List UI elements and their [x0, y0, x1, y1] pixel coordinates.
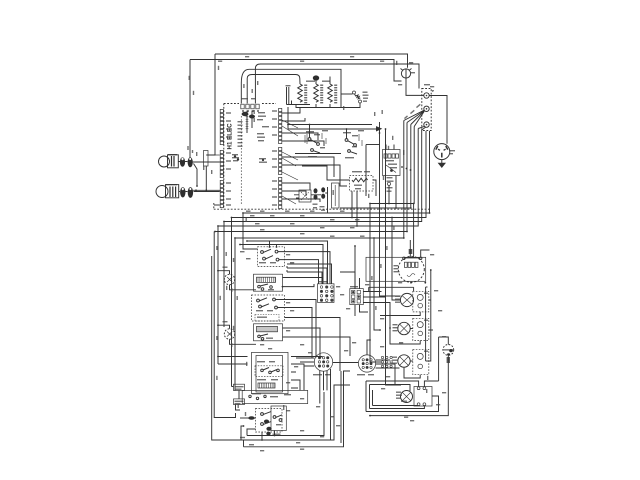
pilot relay K1 box — [254, 274, 283, 291]
label RED wire — [410, 110, 415, 114]
label latch — [403, 150, 404, 155]
wire CN1-a curve to bank top — [241, 69, 341, 107]
wire S5 out rows — [291, 357, 322, 391]
wire OL1 leads — [178, 161, 220, 164]
interlock switch IS1 — [308, 138, 311, 141]
label CN1 wires — [243, 84, 244, 88]
surface switch S1 dashed box — [258, 247, 285, 267]
fuse resistor R5 — [353, 91, 356, 94]
wire E-col link — [426, 286, 428, 288]
wire bus b7 — [215, 123, 407, 232]
wire IL2 leads — [218, 325, 230, 329]
wire S2 out3 — [285, 318, 341, 372]
wire drop x224 — [223, 222, 225, 328]
wire latch bottom drops — [388, 185, 390, 203]
wire P3 tops — [287, 264, 332, 284]
wire K1 out2 — [283, 284, 315, 287]
wire CN1 drop b — [251, 111, 253, 129]
wire bus b5 — [224, 130, 422, 222]
wire fan T2-b — [407, 111, 424, 123]
svg-text:H1 ELEC: H1 ELEC — [227, 123, 234, 150]
wire P6 down — [340, 371, 342, 443]
label lamp wires — [196, 152, 197, 156]
wire RC1 wires — [380, 287, 431, 315]
wire fan T2-c — [411, 111, 424, 125]
wire RC3 wires — [404, 361, 429, 378]
wire K2 out2 — [283, 337, 351, 356]
capacitor C1a — [180, 157, 185, 167]
interlock switch IS2 — [345, 139, 348, 142]
receptacle RC1 dashed — [413, 291, 429, 312]
connector strip CR3 — [279, 177, 282, 180]
S6 inner box — [271, 406, 286, 431]
wire M1 top right — [421, 250, 430, 257]
console pin labels column — [238, 121, 243, 122]
console inner dashed divider — [240, 116, 242, 205]
wire R5 out — [341, 103, 360, 108]
wire P6 up — [367, 340, 370, 355]
surface element E4 — [401, 391, 413, 403]
connector P5 round block — [314, 353, 332, 371]
latch assembly box — [383, 150, 401, 176]
receptacle RC2 dashed — [413, 318, 429, 340]
wire M1 bottom — [369, 282, 414, 292]
wire bank bottom step — [287, 101, 311, 105]
S2 contacts — [257, 299, 260, 302]
wire top bus L1 — [215, 54, 408, 68]
connector strip CR1 — [279, 108, 282, 111]
junction dots bundle — [401, 166, 403, 168]
label R2 — [320, 85, 323, 86]
wire console inner 5 — [282, 157, 334, 177]
wire CN1 drop a — [246, 111, 248, 134]
connector P3 block — [318, 284, 335, 303]
diode pack DK1 — [204, 151, 209, 167]
wire TOD link — [232, 387, 241, 411]
bake element R2 — [314, 84, 319, 102]
wire E4 bottom wires — [366, 396, 439, 412]
wire S2 out1 — [275, 300, 316, 358]
wire console inner 8 — [282, 191, 306, 196]
bus wire labels — [246, 211, 251, 212]
wire latch outer edge — [365, 145, 367, 197]
wire K1 out1 — [283, 278, 323, 285]
wire feed x392 — [392, 218, 401, 301]
junction dots bus — [413, 203, 415, 205]
label TOD wires — [238, 404, 239, 408]
extra pin grid PG — [381, 356, 383, 358]
label bank wires — [343, 106, 344, 110]
capacitor C2a — [180, 187, 185, 197]
label R1 — [304, 85, 307, 86]
label fan — [404, 115, 408, 119]
wire bus b3 — [243, 131, 430, 213]
power plug P1 body — [434, 144, 450, 160]
wire console inner 7 — [282, 183, 310, 190]
wire P5-P6 link — [333, 362, 359, 364]
connector P4 block — [350, 289, 364, 305]
wire console inner 3 — [282, 133, 318, 140]
wire IS row bottom — [295, 153, 341, 155]
control console dashed box — [223, 104, 225, 210]
label BLK wire — [416, 104, 421, 108]
wire hline 124 — [288, 124, 372, 126]
wire elem long v1 — [380, 122, 401, 296]
wire OL3 to terminal — [406, 78, 424, 95]
label bank top caption — [306, 81, 315, 82]
wire IL1 leads — [218, 271, 230, 275]
wire P5 down — [320, 369, 331, 440]
wire hline 129 arrow — [288, 128, 377, 130]
wire outer loop x211 — [212, 256, 241, 440]
wire P4 out right — [363, 292, 390, 329]
wire lamp link — [205, 166, 207, 190]
surface switch S2 dashed box — [252, 295, 285, 321]
wire feed x385 dot — [385, 221, 387, 223]
K1 coil — [257, 277, 276, 282]
wire OL4 right v — [438, 337, 440, 381]
wire CL3 stub — [214, 204, 220, 206]
wire S6 left2 — [247, 429, 256, 436]
connector strip CL3 — [220, 180, 223, 183]
wire E4 loop outer — [366, 381, 419, 387]
connector strip CL2 — [220, 150, 223, 153]
wire left drop BK — [189, 60, 191, 158]
wire elem long v2 — [386, 129, 402, 385]
plug ground lead — [441, 160, 443, 164]
wire R5 in — [341, 93, 353, 95]
wire OL4 top — [439, 337, 449, 345]
wire bottom nest1 — [247, 392, 324, 436]
M1 connector — [404, 262, 407, 267]
wire feed x370 — [370, 204, 381, 363]
oven light OL3 — [401, 69, 410, 78]
wire RC2 wires — [390, 328, 433, 344]
wire lower box top2 — [247, 241, 328, 284]
connector P6 round block — [358, 355, 375, 372]
wire S1 top — [269, 241, 271, 247]
wire bottom nest3 — [244, 371, 351, 447]
wire S2 out2 — [277, 308, 312, 358]
wire lamp feed 2 — [194, 191, 220, 193]
wire motor feed drop — [413, 204, 415, 258]
wire P4 down — [355, 305, 368, 316]
label R5 — [363, 92, 368, 93]
wire S5 left in1 — [218, 356, 248, 358]
oven light OL4 — [443, 345, 454, 356]
wire bus b2 — [340, 125, 411, 209]
surface element E1 — [400, 293, 413, 306]
wire E4 left verticals — [366, 381, 373, 412]
wire sensor right — [373, 180, 376, 196]
pilot relay K2 — [254, 324, 283, 341]
wire S5 left in2 — [218, 363, 248, 365]
wire P6 right — [376, 360, 400, 385]
wire console inner 1 — [282, 108, 300, 113]
wire fan T3-a — [418, 126, 424, 128]
receptacle RC4 box — [414, 387, 432, 407]
terminal T1 — [424, 93, 429, 98]
label feed wires — [371, 276, 372, 280]
label drop wires — [216, 246, 217, 250]
wire P6 up long — [354, 246, 356, 289]
labels CL pins — [226, 112, 231, 113]
label V1 drop — [187, 146, 188, 150]
relay board box B6 — [242, 390, 308, 403]
wire drop x235 — [234, 238, 236, 391]
K1 contacts — [258, 285, 261, 288]
wire R2 R3 bottom — [300, 104, 330, 108]
oven lamp OL2 — [156, 186, 168, 198]
wire latch top stubs — [386, 145, 394, 150]
wire E4 right top — [424, 381, 438, 387]
terminal block TB dashed outline — [422, 89, 431, 131]
wire bus b8 — [235, 121, 404, 239]
terminal T2 — [424, 106, 429, 111]
receptacle RC3 dashed — [413, 349, 429, 374]
wire top bus L4 — [255, 64, 419, 104]
wire R2 hook — [315, 79, 317, 84]
oven lamp OL1 — [159, 156, 170, 167]
oven selector S5 box — [252, 352, 289, 393]
wire sw1 wires — [294, 195, 299, 198]
wire fan T3-b — [422, 127, 426, 130]
wire fan T2-a — [404, 110, 424, 120]
door plunger DP1 — [314, 188, 318, 193]
thermal fuse box TOD1 — [234, 384, 245, 390]
wire S1 out1 — [278, 252, 330, 284]
wire bank drop a — [287, 107, 289, 129]
capacitor C2b — [188, 187, 193, 198]
wire console inner 6 — [282, 165, 347, 186]
wire S6 bottom — [261, 432, 263, 440]
label CN1 — [241, 98, 248, 99]
wire bus b4 — [232, 131, 427, 218]
wire bus b6 — [218, 129, 418, 227]
wire sensor bottom drops — [351, 191, 353, 217]
S2 inner dashed — [255, 315, 279, 322]
wire bottom nest2 — [241, 385, 350, 440]
bake switch S6 dashed box — [256, 409, 283, 433]
wire top bus L2 — [190, 60, 402, 82]
convection motor M1 — [398, 256, 424, 282]
warm element R3 — [328, 84, 333, 102]
wire fan T2-d — [414, 111, 424, 126]
wire bank left pair — [287, 87, 289, 105]
wire RC1 right v — [429, 270, 431, 361]
ground symbol G1 — [439, 163, 445, 167]
wire S1 out2 — [279, 260, 319, 284]
wire CN1-b to broil — [247, 75, 300, 104]
junction dots drops — [242, 212, 244, 214]
console blob 1 — [232, 154, 238, 155]
wire sensor left — [302, 166, 350, 180]
wire OL2 leads — [179, 190, 221, 191]
surface element E3 — [398, 355, 410, 367]
thermal fuse box TOD2 — [234, 399, 245, 405]
oven sensor dashed box — [350, 176, 374, 192]
console fan diagonals — [282, 120, 298, 204]
connector strip CL1 — [220, 109, 223, 112]
wire drop x243 — [243, 213, 258, 249]
door plunger DP2 — [321, 187, 325, 192]
wire IS1 feeds — [310, 125, 347, 139]
wire lamp diag — [194, 164, 198, 187]
S5 coil — [258, 383, 275, 388]
console blob 2 — [259, 158, 266, 159]
wire K2 out1 — [283, 328, 321, 358]
wire OL4 down — [370, 355, 448, 415]
broil element R1 — [298, 84, 303, 102]
labels CR pins — [272, 110, 277, 111]
wire lamp feed 1 — [194, 161, 220, 163]
wire bus b1 — [370, 127, 414, 204]
wire drop x215 long — [214, 232, 235, 418]
wire E4 loop bottom — [373, 405, 419, 407]
surface element E2 — [398, 322, 410, 334]
S5 contacts — [261, 369, 264, 372]
wire DP link — [311, 193, 328, 195]
wire T1 to plug — [429, 96, 447, 144]
door switch box — [299, 190, 311, 202]
relay box RB1 — [332, 183, 340, 208]
label R3 — [334, 85, 337, 86]
S6 contacts — [261, 413, 264, 416]
wire feed x379 dot — [379, 225, 381, 227]
wire P4 up — [340, 272, 360, 289]
indicator lamp IL2 — [224, 329, 234, 339]
wire console inner 4 — [282, 141, 324, 146]
oven sensor element — [352, 178, 368, 182]
plug prong slots — [436, 146, 448, 158]
wire feed x374 — [374, 238, 380, 330]
wire drop x218 — [217, 226, 219, 364]
S5 inner dashed — [255, 366, 283, 377]
wire S6 left1 — [240, 417, 256, 419]
capacitor C1b — [188, 157, 193, 167]
wire lower box top — [240, 245, 323, 285]
wire console left drop — [206, 54, 215, 155]
wire console inner 9 — [282, 199, 320, 202]
indicator lamp IL1 — [224, 274, 234, 284]
wire drop x231 — [231, 218, 233, 387]
wire P5 left — [296, 358, 314, 366]
wire console inner 2 — [282, 118, 305, 121]
svg-text:P: P — [432, 89, 434, 93]
wire right long v — [425, 287, 427, 361]
terminal T3 — [424, 122, 429, 127]
wire lamp junction — [189, 157, 191, 158]
M1 label — [394, 265, 399, 266]
wire RB1 v — [327, 187, 329, 213]
connector CN1 row — [241, 104, 244, 109]
extra wire labels — [218, 61, 222, 62]
label TB — [424, 84, 430, 85]
blower box — [366, 257, 426, 281]
console labels midtop — [258, 112, 265, 113]
connector strip CR2 — [279, 147, 282, 150]
S1 contacts — [261, 251, 264, 254]
wire R3 hook — [329, 77, 331, 85]
wire E4 loop mid — [370, 385, 411, 392]
